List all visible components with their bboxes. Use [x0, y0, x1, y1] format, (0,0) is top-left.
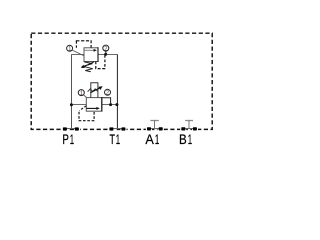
svg-text:1: 1 [155, 133, 159, 148]
svg-text:A: A [145, 132, 154, 148]
svg-text:T: T [110, 134, 115, 148]
svg-text:P: P [62, 132, 69, 148]
svg-text:1: 1 [116, 133, 120, 148]
svg-text:1: 1 [188, 133, 192, 148]
svg-text:1: 1 [70, 133, 74, 148]
svg-text:B: B [179, 132, 187, 147]
